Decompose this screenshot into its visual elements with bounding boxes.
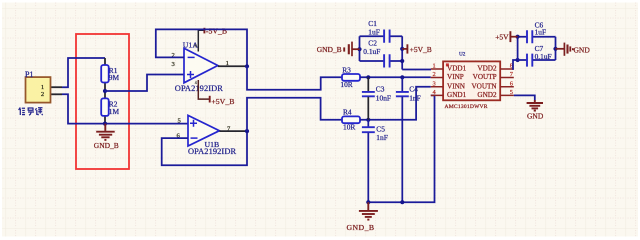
- ground GND_B (divider): [96, 124, 115, 140]
- resistor R1: [101, 65, 119, 83]
- svg-text:1nF: 1nF: [376, 133, 388, 142]
- resistor R4: [342, 108, 360, 132]
- power port +5V_B (right of C1/C2): [400, 44, 432, 54]
- wire VINN net R4 to U2 pin3: [360, 87, 431, 122]
- op-amp U1B: [177, 115, 237, 155]
- svg-text:0.1uF: 0.1uF: [363, 47, 380, 56]
- svg-text:R4: R4: [343, 108, 352, 117]
- wire P1.1 to R1 top: [51, 58, 106, 124]
- isolated amplifier U2: [431, 52, 514, 110]
- node R1-R2 junction: [103, 89, 107, 93]
- capacitor C4: [396, 77, 421, 202]
- svg-text:OPA2192IDR: OPA2192IDR: [188, 147, 236, 156]
- svg-text:1: 1: [41, 84, 44, 91]
- svg-text:VDD2: VDD2: [477, 65, 497, 73]
- svg-text:8: 8: [195, 43, 197, 48]
- power +5V_B (U1A V-): [198, 80, 234, 106]
- svg-text:1uF: 1uF: [535, 28, 547, 37]
- capacitor C3: [362, 77, 391, 120]
- svg-text:5: 5: [510, 89, 513, 96]
- svg-text:-5V_B: -5V_B: [206, 27, 227, 36]
- capacitor C1: [368, 19, 389, 43]
- wire U1A feedback loop pin1 to pin2: [156, 29, 247, 66]
- svg-text:AMC1301DWVR: AMC1301DWVR: [445, 104, 488, 110]
- svg-text:VDD1: VDD1: [447, 65, 467, 73]
- svg-text:GND1: GND1: [447, 91, 467, 99]
- svg-text:2: 2: [41, 91, 44, 98]
- label 信号源 (signal source): [19, 108, 43, 116]
- connector P1: [25, 70, 51, 103]
- svg-text:GND: GND: [527, 111, 544, 120]
- ground GND (isolated side): [527, 100, 543, 111]
- svg-text:6: 6: [510, 80, 513, 87]
- wire U1A output: [218, 64, 342, 90]
- svg-text:GND_B: GND_B: [347, 223, 375, 232]
- op-amp U1A: [172, 41, 229, 94]
- capacitor C2: [363, 38, 389, 67]
- svg-text:+5V_B: +5V_B: [211, 97, 234, 106]
- svg-text:GND: GND: [574, 46, 591, 55]
- wire R1/R2 node to U1A pin3: [105, 75, 184, 92]
- ground GND_B (bottom): [359, 202, 378, 219]
- svg-text:10nF: 10nF: [376, 94, 391, 103]
- svg-text:1M: 1M: [109, 107, 120, 116]
- svg-text:10R: 10R: [343, 123, 355, 132]
- capacitor C6: [527, 20, 546, 43]
- svg-text:9M: 9M: [109, 73, 120, 82]
- svg-text:2: 2: [433, 71, 436, 78]
- svg-text:VOUTP: VOUTP: [473, 73, 497, 81]
- svg-text:+5V_B: +5V_B: [410, 45, 432, 54]
- svg-text:U2: U2: [459, 52, 466, 58]
- wire P1.2 to U1B pin5: [51, 94, 189, 123]
- svg-text:+5V: +5V: [495, 33, 509, 42]
- wire U2 pin5 GND2 to GND: [514, 95, 535, 100]
- svg-text:GND_B: GND_B: [94, 141, 119, 150]
- resistor R3: [340, 66, 360, 90]
- svg-text:4: 4: [195, 80, 197, 85]
- svg-text:VINN: VINN: [447, 82, 466, 90]
- power -5V_B (U1A V+): [198, 27, 227, 52]
- svg-text:R3: R3: [342, 66, 351, 75]
- svg-text:0.1uF: 0.1uF: [535, 52, 552, 61]
- svg-text:1uF: 1uF: [368, 28, 380, 37]
- svg-text:P1: P1: [25, 70, 33, 79]
- svg-text:C3: C3: [376, 84, 385, 93]
- svg-text:1: 1: [433, 63, 436, 70]
- wire U1B output: [219, 98, 342, 134]
- capacitor C5: [362, 120, 388, 202]
- svg-text:10R: 10R: [340, 80, 352, 89]
- resistor R2: [101, 98, 119, 116]
- svg-text:VOUTN: VOUTN: [471, 82, 497, 90]
- svg-text:1nF: 1nF: [409, 94, 421, 103]
- capacitor C7: [527, 44, 552, 66]
- power port +5V: [495, 31, 517, 42]
- wire U1B feedback loop pin7 to pin6: [162, 131, 247, 165]
- svg-text:VINP: VINP: [447, 73, 464, 81]
- svg-text:C4: C4: [409, 84, 418, 93]
- svg-text:3: 3: [433, 80, 436, 87]
- decoupling block C1/C2 rails: [360, 36, 432, 69]
- power port GND_B (left of C1/C2): [317, 42, 362, 57]
- decoupling block C6/C7 rails: [516, 35, 558, 60]
- wire U2 pin4 GND1 to ground rail: [366, 95, 434, 204]
- wire VINP net R3 to U2 pin2: [360, 75, 431, 79]
- wire U2 pin8 VDD2 to C6/C7 rail: [513, 58, 520, 69]
- svg-text:GND_B: GND_B: [317, 45, 342, 54]
- svg-text:GND2: GND2: [477, 91, 497, 99]
- power port GND (right of C6/C7): [556, 43, 591, 56]
- node GND_B tap: [103, 122, 107, 126]
- selection rectangle around divider: [76, 34, 129, 169]
